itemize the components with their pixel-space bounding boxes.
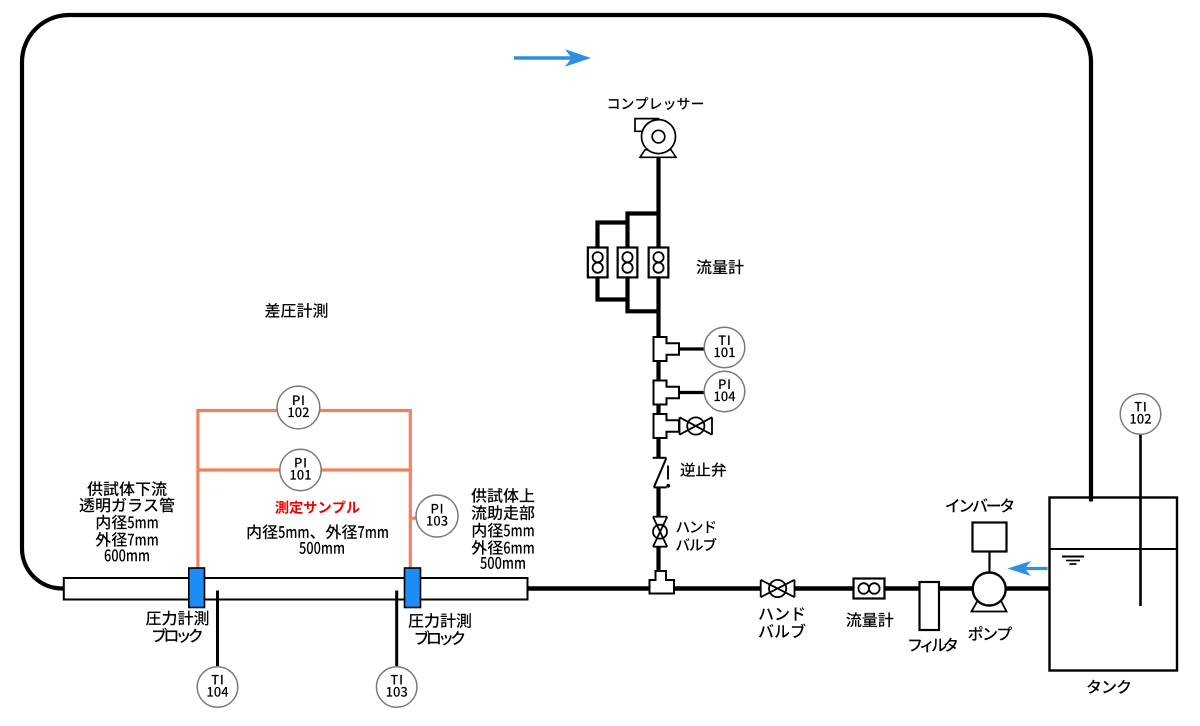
flowmeter rotameter 3 (right) — [649, 248, 669, 278]
wire manifold branch upper (to middle rotameter) — [628, 214, 659, 250]
wire main loop border (left/top/right) — [22, 15, 1091, 589]
pressure block 2 (blue) — [405, 568, 421, 608]
wire orange middle line (PI101) — [198, 468, 410, 471]
label block 供試体上流助走部 — [471, 488, 534, 503]
instrument TI104 — [197, 667, 238, 708]
wire orange stub to PI103 — [410, 517, 418, 520]
wire TI102 probe into tank — [1139, 430, 1142, 606]
compressor inlet circle — [652, 130, 665, 143]
label 差圧計測 — [265, 303, 327, 318]
instrument TI103 — [376, 667, 417, 708]
label ハンドバルブ (bottom) — [759, 607, 804, 620]
wire pipe below check valve — [656, 487, 660, 518]
inverter box — [973, 523, 1007, 552]
flowmeter rotameter 2 (middle) — [618, 248, 638, 278]
flowmeter FM2 near tank — [854, 579, 885, 599]
label ハンドバルブ (vertical valve) — [676, 521, 715, 533]
compressor volute scroll — [635, 119, 659, 132]
pump stand — [972, 599, 1007, 612]
tank liquid surface mark — [1062, 557, 1084, 565]
tank liquid level line — [1050, 548, 1178, 550]
tank body — [1050, 498, 1178, 671]
wire pipe below hand valve — [656, 547, 660, 572]
label タンク — [1087, 680, 1130, 694]
wire pipe between tees 2 — [656, 405, 660, 416]
label 測定サンプル (red) — [275, 501, 359, 515]
label 圧力計測ブロック (left) — [146, 611, 208, 626]
label 圧力計測ブロック (right) — [409, 613, 471, 628]
pressure block 1 (blue) — [189, 568, 205, 608]
filter フィルタ — [920, 582, 940, 630]
wire return pipe into tank — [1089, 498, 1093, 502]
flow direction arrow (top, blue, pointing right) — [514, 49, 591, 67]
vent globe valve (right of tee) — [679, 416, 713, 436]
wire manifold return lower-left (from left rotameter) — [598, 276, 628, 300]
wire compressor outlet down to flowmeter manifold — [656, 157, 660, 249]
instrument PI103 — [416, 495, 458, 537]
pump P1 circle — [973, 573, 1006, 606]
flowmeter rotameter 1 (left) — [588, 248, 608, 278]
instrument PI101 — [280, 449, 321, 490]
tee fitting for vent valve — [654, 414, 680, 438]
label フィルタ — [909, 638, 957, 653]
label ポンプ — [968, 626, 1012, 641]
instrument PI102 — [277, 386, 320, 429]
compressor U1 body circle — [642, 120, 676, 154]
wire main horizontal pipe (test section to tank) — [527, 586, 1050, 590]
wire pipe between tees — [656, 361, 660, 381]
label インバータ — [946, 498, 1013, 512]
instrument TI101 — [704, 327, 745, 368]
label 流量計 (bottom) — [846, 612, 893, 627]
label 流量計 (flowmeter bank) — [697, 260, 744, 275]
compressor label コンプレッサー — [609, 97, 704, 110]
check valve 逆止弁 symbol — [653, 458, 670, 488]
compressor stand — [640, 150, 676, 158]
test section glass pipe (outlined) — [64, 578, 528, 600]
tee fitting at main line junction — [650, 571, 675, 594]
tee fitting for TI101 — [654, 337, 680, 361]
label 逆止弁 — [680, 462, 725, 477]
label 内径5mm、外径7mm 500mm — [248, 524, 388, 539]
wire manifold branch upper-left (to left rotameter) — [598, 223, 628, 250]
instrument TI102 — [1120, 394, 1161, 435]
label block 供試体下流 — [87, 481, 166, 496]
wire manifold return lower (from middle rotameter) — [628, 276, 659, 311]
wire pipe below tee 3 — [656, 438, 660, 458]
hand valve HV2 (horizontal globe valve) — [761, 580, 795, 597]
flow arrow near tank (blue, pointing left) — [1008, 561, 1048, 576]
wire to TI104 — [216, 591, 219, 667]
wire orange DP loop (PI102 top loop) — [198, 411, 410, 569]
wire to TI103 — [395, 591, 398, 667]
wire main pipe through right rotameter down to tee — [656, 276, 660, 338]
tee fitting for PI104 — [654, 381, 680, 405]
wire inverter to pump — [988, 551, 990, 573]
instrument PI104 — [704, 371, 745, 412]
wire tee to TI101 — [679, 347, 705, 350]
wire tee to PI104 — [679, 391, 704, 394]
hand valve HV1 (vertical globe valve) — [651, 517, 668, 547]
